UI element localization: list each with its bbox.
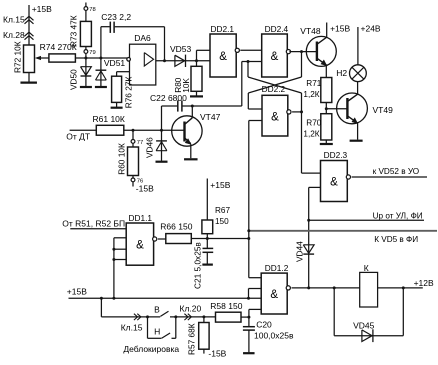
svg-text:+15В: +15В	[67, 286, 87, 296]
svg-text:Кл.20: Кл.20	[180, 303, 202, 313]
svg-text:Uр от УЛ, ФИ: Uр от УЛ, ФИ	[373, 212, 423, 221]
svg-text:R57 68К: R57 68К	[186, 323, 196, 355]
svg-text:1,2К: 1,2К	[303, 130, 319, 139]
svg-text:DD2.3: DD2.3	[324, 150, 348, 160]
svg-text:VD50: VD50	[69, 69, 79, 90]
svg-text:Кл.28: Кл.28	[3, 30, 25, 40]
svg-text:R58 150: R58 150	[210, 301, 242, 311]
svg-text:+15В: +15В	[210, 180, 230, 190]
svg-text:79: 79	[89, 50, 95, 56]
svg-text:-15В: -15В	[208, 348, 226, 358]
svg-text:77: 77	[137, 140, 143, 146]
svg-text:VD51: VD51	[104, 58, 126, 68]
svg-text:VD53: VD53	[170, 44, 192, 54]
svg-text:100,0x25в: 100,0x25в	[254, 331, 294, 341]
svg-text:DD2.4: DD2.4	[265, 24, 289, 34]
svg-text:R66 150: R66 150	[160, 222, 192, 232]
svg-text:VT48: VT48	[300, 26, 321, 36]
svg-text:C23 2,2: C23 2,2	[101, 12, 131, 22]
svg-text:C20: C20	[256, 319, 272, 329]
svg-text:к VD52 в УО: к VD52 в УО	[373, 167, 420, 176]
svg-text:C21 5,0x25в: C21 5,0x25в	[192, 242, 202, 289]
svg-text:К: К	[364, 263, 369, 273]
svg-text:R70: R70	[306, 119, 321, 128]
svg-text:R67: R67	[215, 206, 230, 215]
svg-text:&: &	[330, 177, 338, 189]
svg-text:Кл.15: Кл.15	[3, 14, 25, 24]
svg-text:C22 6800: C22 6800	[150, 93, 187, 103]
svg-text:К VD5 в ФИ: К VD5 в ФИ	[374, 235, 418, 244]
svg-text:&: &	[271, 111, 279, 123]
svg-text:R61 10К: R61 10К	[93, 114, 125, 124]
svg-text:DA6: DA6	[134, 33, 151, 43]
svg-text:150: 150	[215, 217, 229, 226]
svg-text:VD44: VD44	[294, 241, 304, 262]
svg-text:R60 10К: R60 10К	[117, 143, 127, 175]
svg-text:78: 78	[89, 7, 95, 13]
svg-text:VD45: VD45	[353, 320, 375, 330]
svg-text:10K: 10K	[181, 78, 191, 93]
svg-text:-15В: -15В	[136, 183, 154, 193]
svg-text:DD2.1: DD2.1	[211, 24, 235, 34]
svg-text:VT47: VT47	[200, 112, 221, 122]
svg-text:R71: R71	[306, 79, 321, 88]
svg-text:DD1.1: DD1.1	[129, 213, 153, 223]
svg-text:+12В: +12В	[414, 278, 434, 288]
svg-text:Н: Н	[154, 327, 160, 337]
svg-text:R76 27К: R76 27К	[124, 77, 134, 109]
svg-text:+15В: +15В	[32, 4, 52, 14]
svg-text:+24В: +24В	[361, 23, 381, 33]
svg-text:&: &	[219, 51, 227, 63]
svg-text:R73 47К: R73 47К	[69, 15, 79, 47]
svg-text:R72 10К: R72 10К	[13, 41, 23, 73]
svg-text:1,2К: 1,2К	[303, 90, 319, 99]
svg-text:В: В	[154, 304, 160, 314]
svg-text:От R51, R52 БП: От R51, R52 БП	[62, 218, 125, 228]
svg-text:DD1.2: DD1.2	[265, 263, 289, 273]
svg-text:&: &	[136, 240, 144, 252]
svg-text:VD46: VD46	[144, 137, 154, 158]
svg-text:Деблокировка: Деблокировка	[123, 344, 179, 354]
svg-text:От ДТ: От ДТ	[66, 131, 90, 141]
svg-text:H2: H2	[336, 68, 347, 78]
svg-text:&: &	[271, 51, 279, 63]
svg-text:+15В: +15В	[330, 23, 350, 33]
svg-text:VT49: VT49	[373, 105, 394, 115]
svg-text:&: &	[270, 289, 278, 301]
svg-text:Кл.15: Кл.15	[121, 323, 143, 333]
